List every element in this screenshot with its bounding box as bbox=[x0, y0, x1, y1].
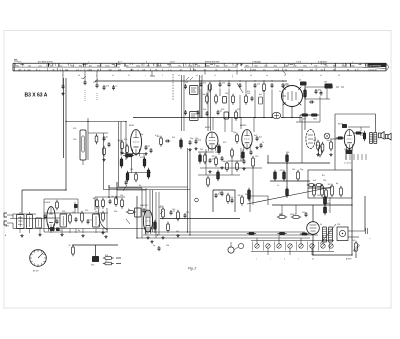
svg-text:4n7: 4n7 bbox=[313, 180, 316, 182]
output transformer bbox=[370, 133, 377, 144]
af mid parts bbox=[126, 208, 146, 224]
tube EABC80 det bbox=[306, 130, 315, 149]
svg-text:a5: a5 bbox=[320, 75, 322, 77]
wire left vertical A bbox=[63, 78, 65, 158]
volume divider chain bbox=[104, 122, 191, 192]
speaker 1 bbox=[379, 132, 385, 140]
wire x88 vertical bbox=[87, 118, 89, 160]
svg-text:47k: 47k bbox=[247, 91, 250, 93]
svg-text:225: 225 bbox=[224, 65, 227, 67]
wire x287 bbox=[286, 163, 288, 189]
svg-text:5p: 5p bbox=[206, 93, 208, 95]
wire vert x352 bbox=[351, 150, 353, 255]
tube EF89 I bbox=[129, 125, 142, 156]
svg-text:2k2: 2k2 bbox=[200, 149, 203, 151]
tube EBF89 bbox=[240, 125, 252, 150]
wire band drop x97 bbox=[96, 71, 98, 101]
svg-text:800: 800 bbox=[97, 65, 100, 67]
svg-text:TOON: TOON bbox=[296, 61, 302, 63]
wire y175 bbox=[198, 174, 240, 176]
svg-text:600: 600 bbox=[216, 65, 219, 67]
svg-text:b1: b1 bbox=[312, 259, 314, 261]
parts around EBF89 bbox=[231, 133, 263, 160]
svg-text:BEREIK AFSTEM: BEREIK AFSTEM bbox=[205, 60, 220, 63]
svg-text:1n: 1n bbox=[279, 91, 281, 93]
svg-text:0,1: 0,1 bbox=[293, 214, 296, 216]
extra grounds mid bbox=[188, 146, 258, 173]
svg-text:10k: 10k bbox=[262, 91, 265, 93]
svg-text:220: 220 bbox=[186, 212, 189, 214]
svg-text:10k: 10k bbox=[238, 195, 241, 197]
component labels texture bbox=[58, 91, 363, 247]
svg-text:94: 94 bbox=[155, 69, 157, 71]
svg-text:150: 150 bbox=[286, 152, 289, 154]
wire right y205 bbox=[272, 204, 352, 206]
svg-text:47k: 47k bbox=[58, 230, 61, 232]
svg-text:x1: x1 bbox=[214, 75, 216, 77]
svg-text:330: 330 bbox=[114, 211, 117, 213]
wire bus y235 bbox=[143, 234, 318, 236]
connector oval bbox=[272, 112, 280, 118]
dial drum bbox=[30, 250, 47, 273]
svg-text:UKW: UKW bbox=[88, 69, 93, 71]
svg-text:1k: 1k bbox=[219, 192, 221, 194]
wire am row y245 bbox=[72, 244, 118, 246]
svg-text:0,1: 0,1 bbox=[66, 213, 69, 215]
wire left drop x22 bbox=[21, 190, 23, 214]
svg-text:220: 220 bbox=[323, 180, 326, 182]
svg-text:1n: 1n bbox=[277, 185, 279, 187]
svg-text:1k: 1k bbox=[320, 224, 322, 226]
am extra wires bbox=[44, 199, 108, 232]
svg-text:330: 330 bbox=[240, 156, 243, 158]
svg-text:104: 104 bbox=[65, 69, 68, 71]
svg-text:10k: 10k bbox=[203, 109, 206, 111]
avc resistor cluster bbox=[274, 145, 328, 199]
svg-text:47k: 47k bbox=[176, 231, 179, 233]
elco caps bbox=[324, 195, 331, 215]
svg-text:90: 90 bbox=[347, 69, 349, 71]
svg-text:275: 275 bbox=[178, 65, 181, 67]
svg-text:47k: 47k bbox=[203, 83, 206, 85]
tube EF89 II bbox=[205, 127, 218, 151]
wire vert x137 bbox=[136, 196, 138, 238]
svg-text:1n: 1n bbox=[105, 260, 107, 262]
svg-text:220: 220 bbox=[337, 224, 340, 226]
svg-text:108: 108 bbox=[118, 69, 121, 71]
svg-text:2a3: 2a3 bbox=[93, 82, 96, 84]
wire vert x365 bbox=[364, 196, 366, 231]
if transformer boxes bbox=[184, 77, 198, 121]
svg-text:225: 225 bbox=[325, 65, 328, 67]
svg-text:330: 330 bbox=[160, 206, 163, 208]
wire x302 bbox=[296, 122, 320, 163]
svg-text:o: o bbox=[232, 77, 233, 79]
svg-text:87: 87 bbox=[180, 69, 182, 71]
svg-text:225: 225 bbox=[38, 65, 41, 67]
svg-text:2M2: 2M2 bbox=[313, 119, 317, 121]
svg-text:108: 108 bbox=[310, 69, 313, 71]
svg-text:3b: 3b bbox=[78, 75, 80, 77]
svg-text:2k2: 2k2 bbox=[218, 194, 221, 196]
svg-text:220: 220 bbox=[280, 170, 283, 172]
capacitor C1 bbox=[61, 84, 64, 95]
svg-text:a 5 10 15: a 5 10 15 bbox=[344, 163, 351, 165]
svg-text:1n: 1n bbox=[115, 86, 117, 88]
svg-text:25: 25 bbox=[173, 211, 175, 213]
svg-text:50p: 50p bbox=[198, 140, 201, 142]
wire nested avc bbox=[195, 190, 268, 212]
svg-text:68k: 68k bbox=[318, 90, 321, 92]
svg-text:39p: 39p bbox=[190, 138, 193, 140]
output wires bbox=[330, 124, 370, 160]
svg-text:560: 560 bbox=[16, 65, 19, 67]
svg-text:1M: 1M bbox=[324, 82, 327, 84]
svg-text:250: 250 bbox=[50, 65, 53, 67]
mixer parts row bbox=[197, 110, 238, 121]
if coupling parts bbox=[157, 136, 201, 149]
capacitor C12 bbox=[95, 134, 110, 161]
svg-text:500: 500 bbox=[314, 65, 317, 67]
tube ECC85 front-end bbox=[282, 85, 303, 107]
rectifier circle bbox=[307, 222, 320, 235]
svg-text:150: 150 bbox=[317, 195, 320, 197]
svg-text:8p: 8p bbox=[128, 209, 130, 211]
agc parts row bbox=[207, 156, 255, 187]
wire loom mid2 bbox=[156, 192, 159, 238]
oscillator caps row bbox=[200, 82, 289, 93]
svg-text:EBF89: EBF89 bbox=[240, 125, 247, 127]
svg-text:8p: 8p bbox=[78, 230, 80, 232]
wire band drop x63 bbox=[62, 71, 64, 84]
svg-text:350: 350 bbox=[71, 65, 74, 67]
svg-text:25: 25 bbox=[69, 245, 71, 247]
wire band drop x85 bbox=[84, 71, 86, 101]
svg-text:560: 560 bbox=[342, 65, 345, 67]
svg-text:100: 100 bbox=[195, 138, 198, 140]
svg-text:2k2: 2k2 bbox=[259, 137, 262, 139]
svg-text:220: 220 bbox=[215, 152, 218, 154]
svg-text:96: 96 bbox=[321, 69, 323, 71]
svg-text:106: 106 bbox=[130, 69, 133, 71]
svg-text:EABC80: EABC80 bbox=[140, 204, 149, 207]
resistor chain R12 bbox=[73, 128, 86, 165]
svg-text:102: 102 bbox=[274, 69, 277, 71]
svg-text:106: 106 bbox=[142, 69, 145, 71]
wire output box bbox=[335, 114, 376, 170]
svg-text:4a: 4a bbox=[266, 75, 268, 77]
svg-text:2k2: 2k2 bbox=[72, 212, 75, 214]
wire corner top loom bbox=[109, 182, 146, 190]
wire am mid bbox=[10, 217, 60, 220]
title B3X63A bbox=[25, 92, 48, 98]
svg-text:400: 400 bbox=[89, 65, 92, 67]
volume pot bbox=[159, 207, 187, 221]
wire y152 stub bbox=[198, 148, 253, 205]
af arc bbox=[99, 206, 108, 238]
svg-text:2k2: 2k2 bbox=[185, 82, 188, 84]
svg-text:EF89: EF89 bbox=[129, 125, 135, 127]
parts around EF89 I bbox=[118, 140, 153, 158]
eabc resistors bbox=[314, 140, 333, 156]
svg-text:1300: 1300 bbox=[245, 65, 249, 67]
el84 pins bbox=[344, 154, 366, 165]
wire y163 right bbox=[268, 162, 330, 164]
svg-text:2: 2 bbox=[162, 75, 163, 77]
wire bottom rail right bbox=[313, 254, 352, 256]
svg-text:900: 900 bbox=[264, 65, 267, 67]
svg-text:2M2: 2M2 bbox=[285, 84, 289, 86]
svg-text:47k: 47k bbox=[172, 137, 175, 139]
svg-text:x: x bbox=[200, 77, 201, 79]
svg-text:4n7: 4n7 bbox=[254, 135, 257, 137]
svg-text:560: 560 bbox=[254, 65, 257, 67]
svg-text:470: 470 bbox=[230, 197, 233, 199]
svg-text:220: 220 bbox=[212, 156, 215, 158]
svg-text:0,1: 0,1 bbox=[155, 135, 158, 137]
svg-text:1n: 1n bbox=[262, 142, 264, 144]
svg-text:50p: 50p bbox=[300, 169, 303, 171]
svg-text:50p: 50p bbox=[327, 140, 330, 142]
bottom resistor pair bbox=[103, 255, 121, 265]
svg-text:8p: 8p bbox=[314, 140, 316, 142]
svg-text:47k: 47k bbox=[222, 83, 225, 85]
svg-text:M G: M G bbox=[18, 61, 22, 63]
svg-text:1n: 1n bbox=[95, 211, 97, 213]
wire second rail bbox=[133, 118, 302, 133]
svg-text:470: 470 bbox=[73, 128, 76, 130]
af parts right bbox=[150, 220, 169, 252]
svg-text:330: 330 bbox=[62, 211, 65, 213]
svg-text:220: 220 bbox=[221, 109, 224, 111]
svg-text:39p: 39p bbox=[140, 134, 143, 136]
svg-text:96: 96 bbox=[52, 69, 54, 71]
wire am top bbox=[13, 213, 108, 218]
svg-text:8p: 8p bbox=[336, 183, 338, 185]
wire top rail bbox=[95, 80, 287, 82]
svg-text:700: 700 bbox=[28, 65, 31, 67]
svg-text:68k: 68k bbox=[327, 203, 330, 205]
svg-text:1600: 1600 bbox=[188, 65, 192, 67]
trimmer caps bbox=[81, 76, 117, 90]
mains wires bbox=[348, 228, 371, 240]
wire af cluster wires bbox=[95, 182, 125, 210]
svg-text:200: 200 bbox=[158, 65, 161, 67]
svg-text:90: 90 bbox=[263, 69, 265, 71]
svg-text:Fig. 2: Fig. 2 bbox=[188, 267, 196, 271]
svg-text:150: 150 bbox=[130, 169, 133, 171]
svg-text:10k: 10k bbox=[233, 132, 236, 134]
svg-text:50p: 50p bbox=[118, 140, 121, 142]
svg-text:a5: a5 bbox=[178, 75, 180, 77]
svg-text:5p: 5p bbox=[148, 146, 150, 148]
am choke bbox=[69, 245, 100, 267]
svg-text:4n7: 4n7 bbox=[259, 94, 262, 96]
svg-text:8p: 8p bbox=[98, 225, 100, 227]
svg-text:470: 470 bbox=[223, 142, 226, 144]
svg-text:x: x bbox=[39, 69, 40, 71]
tube EL84 bbox=[338, 124, 355, 151]
svg-text:B1·B7: B1·B7 bbox=[33, 271, 39, 273]
svg-text:150: 150 bbox=[302, 212, 305, 214]
svg-text:5p: 5p bbox=[112, 196, 114, 198]
svg-text:ANT AARDE AFST: ANT AARDE AFST bbox=[38, 60, 54, 63]
svg-text:90: 90 bbox=[285, 69, 287, 71]
tube EABC triode bbox=[140, 204, 153, 234]
svg-text:98: 98 bbox=[241, 69, 243, 71]
switch terminal bbox=[228, 242, 244, 253]
svg-text:A7B78: A7B78 bbox=[346, 258, 351, 261]
wire tuning verticals 1 bbox=[182, 75, 185, 131]
svg-text:220: 220 bbox=[290, 214, 293, 216]
wire tuning link dashed bbox=[172, 74, 174, 100]
svg-text:B BALANS: B BALANS bbox=[318, 60, 328, 63]
wire y121 horizontal bbox=[66, 121, 126, 123]
svg-text:400: 400 bbox=[285, 65, 288, 67]
svg-text:1k: 1k bbox=[93, 198, 95, 200]
svg-text:ECH81: ECH81 bbox=[44, 202, 51, 204]
svg-text:1M: 1M bbox=[344, 149, 347, 151]
svg-text:o: o bbox=[352, 61, 353, 63]
svg-text:a5: a5 bbox=[112, 75, 114, 77]
svg-text:a5: a5 bbox=[250, 75, 252, 77]
svg-text:150: 150 bbox=[172, 209, 175, 211]
svg-text:5p: 5p bbox=[108, 197, 110, 199]
svg-text:47k: 47k bbox=[124, 139, 127, 141]
svg-text:470: 470 bbox=[85, 210, 88, 212]
svg-text:560: 560 bbox=[303, 65, 306, 67]
wire loom mid bbox=[142, 188, 153, 238]
svg-text:5p: 5p bbox=[153, 245, 155, 247]
under band labels bbox=[62, 75, 340, 77]
svg-text:x: x bbox=[168, 69, 169, 71]
svg-text:150: 150 bbox=[280, 214, 283, 216]
svg-text:8p: 8p bbox=[106, 137, 108, 139]
voltage selector bbox=[337, 227, 348, 241]
wire fm circle drop bbox=[291, 107, 293, 118]
svg-text:1600: 1600 bbox=[136, 65, 140, 67]
am parts a bbox=[44, 211, 84, 227]
svg-text:a5: a5 bbox=[196, 75, 198, 77]
svg-text:106: 106 bbox=[108, 69, 111, 71]
svg-text:2a: 2a bbox=[128, 75, 130, 77]
svg-text:1600: 1600 bbox=[105, 65, 109, 67]
wire y181 bbox=[270, 180, 310, 182]
svg-text:39p: 39p bbox=[223, 161, 226, 163]
svg-text:200: 200 bbox=[146, 65, 149, 67]
svg-text:EF89: EF89 bbox=[205, 127, 211, 129]
wire y168 bbox=[200, 167, 262, 169]
svg-text:10k: 10k bbox=[292, 169, 295, 171]
svg-text:B3 X 63 A: B3 X 63 A bbox=[25, 92, 48, 98]
svg-text:470: 470 bbox=[140, 157, 143, 159]
speaker 2 bbox=[386, 133, 392, 140]
svg-text:A F C: A F C bbox=[118, 60, 123, 63]
mains transformer bbox=[320, 224, 336, 244]
svg-text:10k: 10k bbox=[120, 195, 123, 197]
svg-text:UKW: UKW bbox=[298, 69, 303, 71]
svg-text:8p: 8p bbox=[139, 185, 141, 187]
input coil boxes bbox=[17, 212, 42, 229]
wire y133 horizontal bbox=[88, 132, 108, 134]
am parts b bbox=[87, 211, 105, 227]
svg-text:47k: 47k bbox=[106, 86, 109, 88]
svg-text:47k: 47k bbox=[316, 145, 319, 147]
svg-text:1600: 1600 bbox=[205, 65, 209, 67]
box resistors bbox=[313, 175, 343, 197]
osc extra parts bbox=[245, 81, 263, 105]
wire tuning verticals 3 bbox=[208, 85, 211, 131]
wire af line y218 bbox=[160, 218, 240, 220]
svg-text:D KANAAL: D KANAAL bbox=[252, 60, 261, 63]
wire vert x313 bbox=[312, 205, 314, 255]
svg-text:200: 200 bbox=[59, 65, 62, 67]
svg-text:5p: 5p bbox=[220, 111, 222, 113]
pilot lamp bbox=[324, 133, 330, 139]
wire tuning verticals 2 bbox=[200, 75, 203, 118]
band switch SK1 bbox=[247, 232, 334, 260]
svg-text:150: 150 bbox=[255, 156, 258, 158]
svg-text:LUISTERVINK: LUISTERVINK bbox=[368, 65, 382, 67]
caption Fig 2 bbox=[188, 267, 196, 271]
detector cluster right bbox=[299, 80, 344, 131]
svg-text:UKW: UKW bbox=[252, 69, 257, 71]
svg-text:275: 275 bbox=[168, 65, 171, 67]
svg-text:102: 102 bbox=[27, 69, 30, 71]
vdr bbox=[346, 241, 360, 261]
svg-text:92: 92 bbox=[215, 69, 217, 71]
svg-text:500: 500 bbox=[293, 65, 296, 67]
aerial terminals bbox=[4, 213, 13, 237]
svg-text:4n7: 4n7 bbox=[303, 119, 306, 121]
svg-text:b2: b2 bbox=[338, 75, 340, 77]
svg-text:x1: x1 bbox=[284, 75, 286, 77]
svg-text:300: 300 bbox=[197, 65, 200, 67]
svg-text:1000: 1000 bbox=[350, 65, 354, 67]
wire pair x187 bbox=[188, 148, 191, 235]
svg-text:o: o bbox=[88, 61, 89, 63]
agc resistor pairs bbox=[277, 205, 308, 218]
wire am bottom bbox=[13, 223, 145, 233]
wire left horizontal y190 bbox=[22, 189, 66, 191]
svg-text:94: 94 bbox=[97, 69, 99, 71]
wire box right bbox=[308, 170, 352, 198]
wire y188 right bbox=[308, 187, 330, 189]
wire left vertical B bbox=[65, 78, 67, 190]
svg-text:800: 800 bbox=[79, 65, 82, 67]
band pointer marks bbox=[150, 71, 286, 79]
svg-text:S40: S40 bbox=[91, 265, 94, 267]
svg-text:150: 150 bbox=[247, 93, 250, 95]
svg-text:470: 470 bbox=[212, 159, 215, 161]
svg-text:100: 100 bbox=[245, 194, 248, 196]
af cluster left bbox=[93, 196, 124, 209]
svg-text:400: 400 bbox=[274, 65, 277, 67]
svg-text:2k2: 2k2 bbox=[328, 184, 331, 186]
svg-text:350: 350 bbox=[235, 65, 238, 67]
svg-text:2k2: 2k2 bbox=[352, 240, 355, 242]
parts around EF89 II bbox=[199, 144, 224, 167]
svg-text:25: 25 bbox=[299, 80, 301, 82]
tube ECH81 bbox=[44, 202, 55, 231]
am grounds bbox=[20, 231, 179, 239]
svg-text:106: 106 bbox=[18, 69, 21, 71]
svg-text:CA75: CA75 bbox=[5, 225, 10, 228]
svg-text:150: 150 bbox=[257, 84, 260, 86]
wire x126 vertical bbox=[125, 122, 127, 161]
svg-text:150: 150 bbox=[225, 93, 228, 95]
dial scale bbox=[13, 60, 389, 72]
